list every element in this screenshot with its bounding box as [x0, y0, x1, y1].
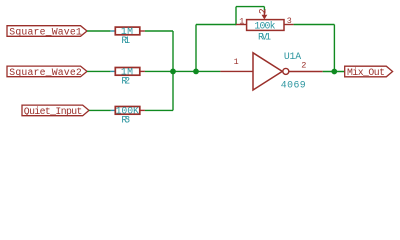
svg-text:RV1: RV1	[258, 32, 271, 43]
inverter U1A output pin 2	[289, 71, 323, 73]
svg-text:R1: R1	[121, 35, 130, 46]
wire R1 to corner	[145, 30, 173, 32]
inverter U1A input pin 1	[220, 70, 253, 72]
pin 2 of R1 (red stub)	[140, 30, 145, 32]
wire top horizontal to wiper	[236, 6, 264, 8]
pin 2 of R2 (red stub)	[140, 70, 145, 72]
pin 1 of R1 (teal stub)	[110, 30, 115, 32]
svg-text:Square_Wave1: Square_Wave1	[9, 27, 82, 38]
wire node B up to pot pin1 level	[195, 25, 197, 72]
junction node A	[170, 69, 176, 75]
wire label2 to R2	[87, 70, 110, 72]
resistor R2	[115, 67, 140, 87]
wire vertical R1 down to node	[172, 31, 174, 110]
wire riser to wiper level	[235, 7, 237, 26]
resistor R3	[115, 106, 140, 126]
svg-text:1: 1	[239, 16, 244, 26]
wire pot pin3 to corner	[294, 24, 335, 26]
pin 2 of R3 (red stub)	[140, 109, 145, 111]
inverter U1A triangle	[253, 53, 282, 90]
svg-text:U1A: U1A	[284, 51, 301, 62]
hierarchical label Mix_Out	[345, 66, 393, 78]
wire inverter output to label	[323, 71, 345, 73]
wire down to wiper pin	[263, 7, 265, 11]
wire to pot pin 1	[196, 24, 236, 26]
pin 1 of R2 (teal stub)	[110, 70, 115, 72]
hierarchical label Square_Wave2	[7, 66, 87, 78]
junction node B	[193, 69, 199, 75]
wire label3 to R3	[89, 109, 111, 111]
svg-text:Square_Wave2: Square_Wave2	[9, 67, 82, 78]
svg-text:3: 3	[287, 16, 292, 26]
svg-text:Quiet_Input: Quiet_Input	[24, 106, 83, 117]
svg-text:100k: 100k	[254, 21, 275, 32]
pin 1 of R3 (teal stub)	[111, 109, 116, 111]
svg-text:R3: R3	[121, 114, 130, 125]
svg-text:Mix_Out: Mix_Out	[347, 67, 385, 78]
hierarchical label Square_Wave1	[7, 26, 87, 38]
junction node C	[331, 69, 337, 75]
wire label1 to R1	[87, 30, 110, 32]
svg-text:2: 2	[301, 61, 306, 71]
wire R3 to riser	[145, 109, 173, 111]
potentiometer RV1	[236, 10, 294, 42]
resistor R1	[115, 26, 140, 46]
svg-text:1: 1	[234, 57, 239, 67]
inverter U1A bubble	[283, 68, 289, 74]
wire down to output node	[333, 25, 335, 72]
svg-text:2: 2	[258, 8, 269, 14]
svg-text:R2: R2	[121, 75, 130, 86]
wire R2 to inverter input	[145, 70, 221, 72]
hierarchical label Quiet_Input	[22, 105, 89, 117]
svg-text:4069: 4069	[281, 79, 306, 90]
